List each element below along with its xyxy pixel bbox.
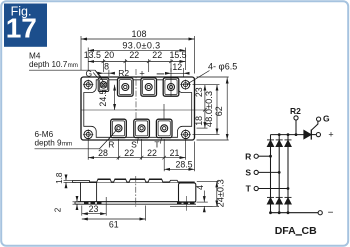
mounting hole bottom-right	[181, 129, 191, 139]
right dim 48.0+-0.3	[193, 85, 220, 135]
internal dim 24.5	[114, 85, 116, 110]
svg-text:G: G	[85, 68, 92, 78]
svg-text:22: 22	[129, 50, 139, 60]
terminal minus box	[163, 78, 179, 96]
svg-text:108: 108	[131, 29, 146, 39]
S screw	[138, 125, 145, 132]
diode D5 bottom leg2	[276, 197, 283, 204]
svg-text:R: R	[108, 139, 114, 149]
svg-text:62: 62	[214, 106, 224, 116]
svg-text:15.5: 15.5	[169, 50, 186, 60]
leader overlays	[163, 104, 165, 119]
side dim 61	[82, 206, 146, 221]
svg-text:12: 12	[172, 62, 182, 72]
svg-text:18: 18	[194, 116, 204, 126]
wire leg3 vertical	[287, 135, 289, 213]
dim 93.0 +-0.3	[88, 48, 185, 71]
svg-text:R2: R2	[290, 106, 301, 116]
R screw	[115, 125, 122, 132]
plus screw	[145, 84, 152, 91]
svg-text:22: 22	[124, 148, 134, 158]
wire S to leg2	[258, 171, 279, 173]
terminal R box	[111, 119, 127, 137]
node T input terminal	[254, 186, 258, 190]
wire gate	[311, 121, 318, 130]
svg-text:R2: R2	[118, 68, 129, 78]
svg-text:depth 10.7mm: depth 10.7mm	[29, 60, 78, 69]
svg-text:−: −	[328, 208, 334, 219]
svg-text:4- φ6.5: 4- φ6.5	[208, 61, 237, 72]
side hole centerline	[185, 196, 187, 211]
terminal T box	[156, 119, 172, 137]
svg-text:T: T	[246, 184, 252, 194]
terminal R2 box	[118, 78, 134, 96]
side mounting surface line	[170, 205, 213, 207]
svg-text:22: 22	[152, 50, 162, 60]
svg-text:1.8: 1.8	[55, 172, 64, 184]
svg-text:22: 22	[147, 148, 157, 158]
svg-text:23: 23	[194, 87, 204, 97]
mounting hole bottom-left	[83, 129, 93, 139]
svg-text:2: 2	[53, 207, 62, 212]
svg-text:20: 20	[104, 50, 114, 60]
svg-text:23: 23	[89, 204, 99, 214]
module inner contour with corner arcs	[84, 80, 192, 138]
side dim 4	[197, 191, 208, 212]
wire R to leg1	[258, 155, 270, 157]
svg-text:21: 21	[170, 148, 180, 158]
module outer outline	[81, 77, 195, 140]
diode D2 top leg2	[276, 140, 283, 147]
svg-text:+: +	[328, 130, 333, 140]
node plus terminal	[316, 133, 320, 137]
bottom dim extension lines	[88, 139, 194, 171]
side baseplate	[75, 202, 196, 204]
wire T to leg3	[258, 188, 288, 190]
side body bottom	[78, 201, 196, 203]
horizontal reference line	[81, 109, 209, 111]
wire bottom rail	[271, 212, 319, 214]
node S input terminal	[254, 170, 258, 174]
svg-text:24±0.3: 24±0.3	[216, 179, 226, 207]
label 6-M6 depth 9mm	[35, 129, 119, 149]
side right end block	[179, 183, 196, 202]
Fig 17 blue box	[4, 4, 47, 47]
side top lip	[73, 181, 90, 183]
node R input terminal	[254, 154, 258, 158]
minus screw	[168, 84, 175, 91]
side body top line	[90, 181, 195, 183]
svg-text:17: 17	[6, 13, 37, 44]
T screw	[161, 125, 168, 132]
side dim 2	[73, 197, 81, 210]
terminal S box	[134, 119, 150, 137]
R2 screw	[122, 84, 129, 91]
bottom dim 28.5	[164, 168, 194, 170]
side dim 23	[82, 197, 106, 216]
wire leg1 vertical	[270, 135, 272, 213]
node G terminal	[317, 117, 321, 121]
svg-text:8: 8	[104, 62, 109, 72]
terminal plus box	[141, 78, 157, 96]
wire cathode to plus	[311, 134, 316, 136]
svg-text:61: 61	[109, 219, 119, 229]
svg-text:13.5: 13.5	[84, 50, 101, 60]
right dim 62	[197, 77, 229, 140]
svg-text:28.5: 28.5	[175, 159, 192, 169]
side body left face	[81, 182, 97, 201]
wire top rail	[271, 134, 304, 136]
svg-text:4: 4	[195, 185, 205, 190]
bottom dim row 28 22 22 21	[88, 156, 185, 160]
dim row 13.5 20 22 22 15.5	[88, 59, 185, 72]
side centerline	[135, 176, 137, 208]
svg-text:28: 28	[98, 148, 108, 158]
mounting hole top-right	[180, 80, 190, 90]
label M4 depth 10.7mm	[29, 51, 104, 79]
svg-text:G: G	[323, 113, 330, 123]
wire R2 down	[295, 120, 297, 135]
mounting hole top-left	[83, 80, 93, 90]
svg-text:R: R	[245, 151, 251, 161]
node minus terminal	[318, 211, 322, 215]
svg-text:S: S	[245, 168, 251, 178]
svg-text:24.5: 24.5	[98, 89, 108, 106]
side dim 24+-0.3	[197, 181, 219, 206]
right dims 23 / 18	[197, 85, 208, 128]
G screw	[100, 82, 107, 89]
svg-text:+: +	[139, 68, 145, 79]
gate aux terminal G box	[98, 78, 109, 92]
diode D3 top leg3	[285, 140, 292, 147]
dim 108	[81, 36, 195, 74]
wire leg2 vertical	[278, 135, 280, 213]
diode D4 bottom leg1	[267, 197, 274, 204]
side terminal bumps	[97, 179, 179, 182]
diode D1 top leg1	[267, 140, 274, 147]
vertical centerline	[135, 69, 137, 119]
svg-text:depth 9mm: depth 9mm	[35, 138, 73, 147]
junction dots	[269, 133, 297, 214]
side dim 1.8	[64, 175, 77, 187]
S T label leader ticks	[137, 138, 161, 144]
thyristor U1	[304, 130, 311, 140]
node R2 terminal	[294, 116, 298, 120]
svg-text:48.0±0.3: 48.0±0.3	[204, 91, 214, 127]
diode D6 bottom leg3	[285, 197, 292, 204]
